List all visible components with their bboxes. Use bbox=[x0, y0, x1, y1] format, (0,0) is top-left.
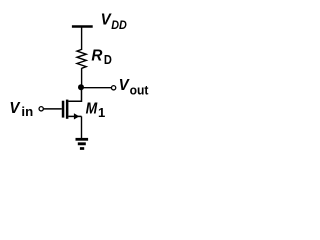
svg-text:1: 1 bbox=[98, 105, 105, 120]
svg-text:V: V bbox=[119, 77, 130, 94]
svg-text:V: V bbox=[9, 100, 20, 117]
svg-text:out: out bbox=[130, 83, 149, 98]
svg-text:DD: DD bbox=[111, 18, 127, 32]
svg-text:M: M bbox=[86, 101, 98, 118]
svg-text:in: in bbox=[21, 104, 33, 119]
svg-text:R: R bbox=[91, 48, 102, 65]
svg-text:V: V bbox=[101, 12, 112, 29]
svg-text:D: D bbox=[104, 52, 112, 67]
